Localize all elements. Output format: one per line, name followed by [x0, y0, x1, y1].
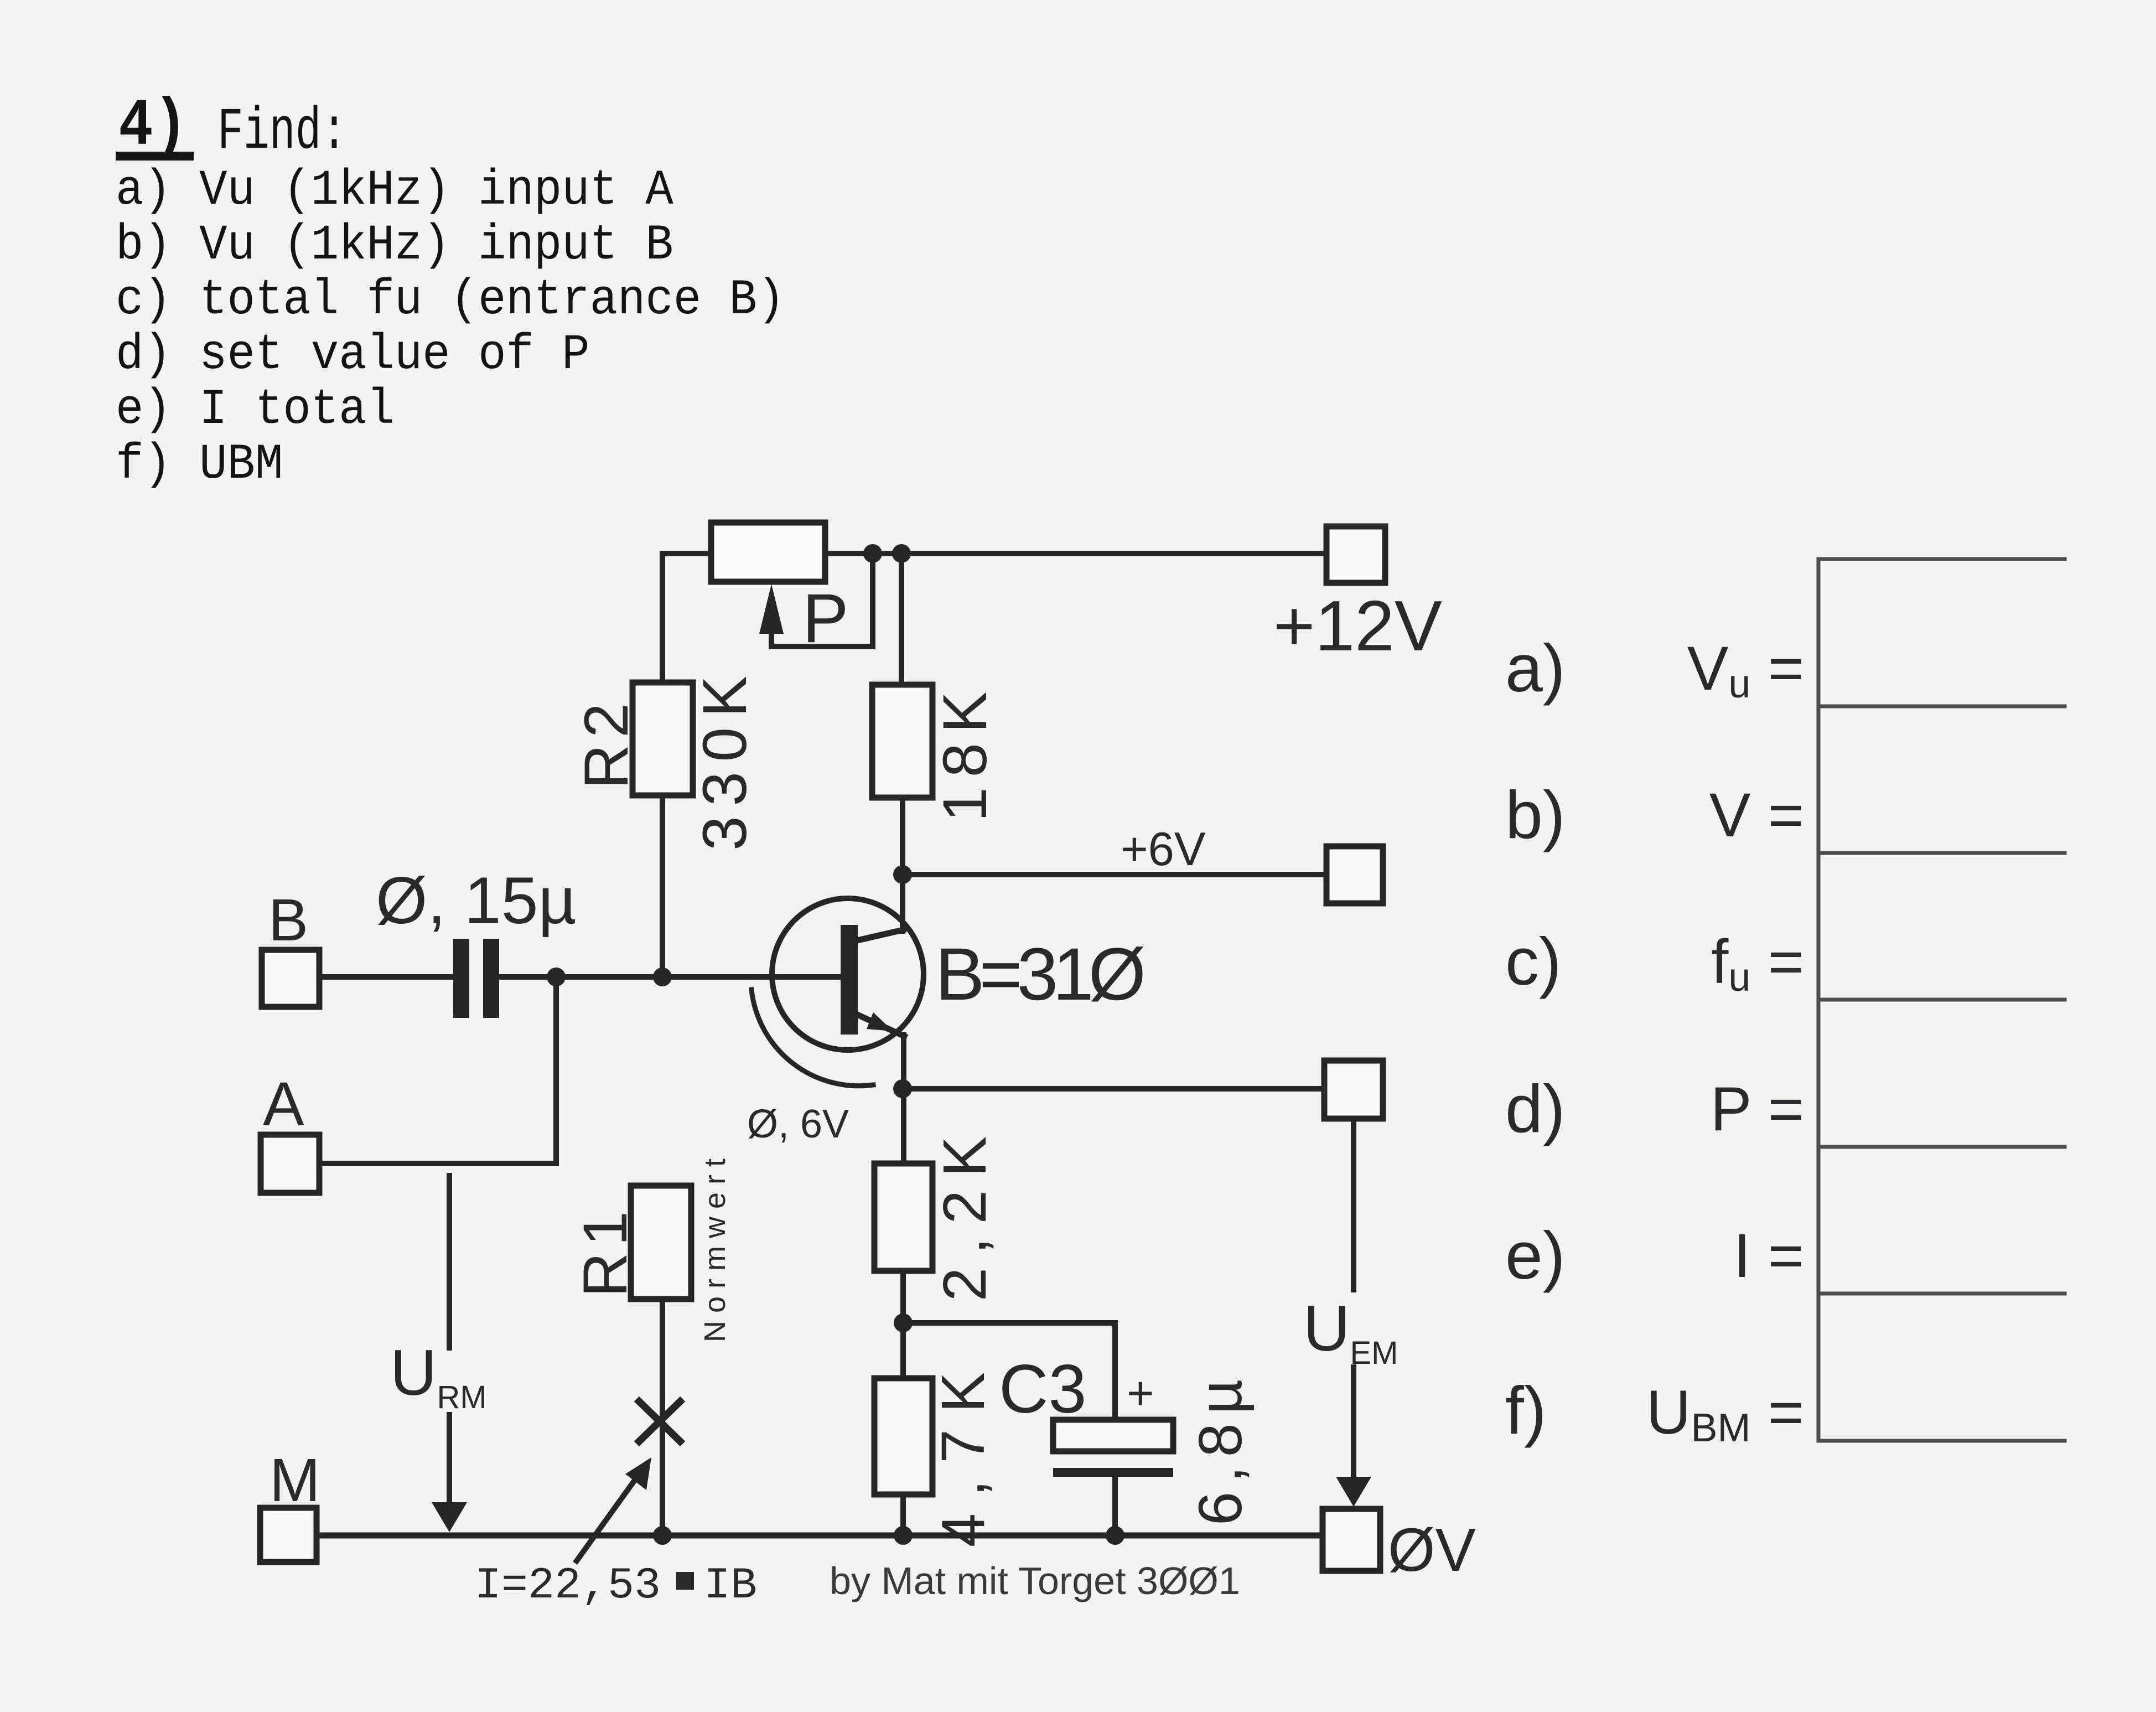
- wire node to C3: [903, 1323, 1115, 1420]
- wire collector: [900, 798, 905, 931]
- junction base/R1R2: [653, 968, 672, 986]
- answer row e: [1505, 1218, 1804, 1293]
- junction emitter RC node: [894, 1313, 913, 1332]
- measurement arrow U_RM: [390, 1176, 487, 1532]
- capacitor C3 6,8u: [999, 1351, 1255, 1535]
- svg-text:IB: IB: [704, 1561, 757, 1611]
- svg-text:A: A: [263, 1069, 304, 1139]
- annotation by Mat mit Torget 3001: [830, 1559, 1240, 1602]
- junction C3/rail: [1106, 1526, 1124, 1545]
- svg-text:e): e): [1505, 1218, 1565, 1293]
- junction emitter node: [893, 1079, 912, 1098]
- svg-text:Ø, 6V: Ø, 6V: [747, 1102, 849, 1146]
- svg-text:d): d): [1505, 1071, 1565, 1146]
- wire pot left to R2: [662, 554, 711, 682]
- svg-text:+6V: +6V: [1121, 823, 1206, 876]
- svg-text:2,2K: 2,2K: [931, 1123, 999, 1301]
- junction R1/rail: [653, 1526, 672, 1545]
- wire +12V rail: [825, 551, 1326, 556]
- junction 4,7K/rail: [894, 1526, 913, 1545]
- answer table grid: [1818, 559, 2065, 1441]
- heading Find:: [217, 99, 347, 166]
- svg-text:+12V: +12V: [1273, 586, 1442, 666]
- resistor 18K: [872, 681, 999, 821]
- resistor 4,7K: [874, 1356, 997, 1547]
- item f: [116, 437, 283, 493]
- wire 18K top: [899, 554, 904, 685]
- svg-text:P: P: [802, 580, 848, 657]
- heading number 4): [118, 89, 188, 164]
- svg-text:ØV: ØV: [1388, 1516, 1476, 1584]
- wire +6V: [903, 872, 1326, 877]
- svg-text:UEM: UEM: [1303, 1292, 1398, 1371]
- svg-text:I=22,53: I=22,53: [475, 1561, 661, 1611]
- wire R2 to base node: [660, 795, 665, 977]
- svg-text:18K: 18K: [930, 681, 999, 821]
- svg-text:URM: URM: [390, 1336, 487, 1415]
- svg-text:f): f): [1505, 1373, 1547, 1448]
- svg-text:Vu =: Vu =: [1687, 634, 1804, 706]
- wire emitter to terminal d: [903, 1086, 1324, 1092]
- junction 18K/rail: [892, 544, 911, 563]
- transistor Q1: [772, 898, 1144, 1050]
- svg-text:V =: V =: [1709, 780, 1804, 850]
- answer row d: [1505, 1071, 1804, 1146]
- wire C1 to base: [499, 974, 841, 980]
- measurement arc 0,6V: [747, 990, 873, 1146]
- wire 2,2K to node: [900, 1271, 906, 1378]
- wire input A branch: [319, 977, 556, 1163]
- svg-text:B: B: [268, 886, 308, 953]
- item b: [116, 218, 673, 274]
- annotation I=22,53 IB: [475, 1561, 757, 1611]
- wire emitter down: [901, 1035, 906, 1163]
- resistor R1: [571, 1151, 732, 1342]
- terminal +6V: [1326, 846, 1383, 903]
- svg-text:UBM =: UBM =: [1646, 1378, 1804, 1450]
- item c: [116, 272, 785, 329]
- junction collector +6V: [893, 865, 912, 884]
- wire 4,7K to rail: [900, 1494, 906, 1535]
- svg-text:I =: I =: [1733, 1221, 1804, 1290]
- annotation arrow to X: [577, 1457, 651, 1561]
- answer row b: [1505, 777, 1804, 852]
- svg-text:330K: 330K: [690, 666, 759, 851]
- svg-text:B=31Ø: B=31Ø: [935, 933, 1144, 1016]
- capacitor C1 0,15u: [376, 863, 577, 1018]
- terminal 0V: [1323, 1509, 1476, 1584]
- junction base/A: [547, 968, 566, 986]
- terminal M: [260, 1446, 320, 1562]
- svg-text:R1: R1: [571, 1204, 640, 1297]
- svg-text:c): c): [1505, 924, 1562, 999]
- svg-text:b): b): [1505, 777, 1565, 852]
- terminal B: [262, 886, 319, 1007]
- svg-text:C3: C3: [999, 1351, 1087, 1427]
- svg-text:6,8µ: 6,8µ: [1186, 1370, 1255, 1525]
- svg-text:P =: P =: [1711, 1074, 1804, 1144]
- svg-text:R2: R2: [572, 696, 641, 789]
- svg-text:by Mat mit Torget 3ØØ1: by Mat mit Torget 3ØØ1: [830, 1559, 1240, 1602]
- svg-text:+: +: [1127, 1367, 1154, 1420]
- item d: [116, 327, 590, 384]
- wire ground rail: [317, 1533, 1323, 1539]
- svg-text:Ø, 15µ: Ø, 15µ: [376, 863, 577, 938]
- svg-text:a): a): [1505, 630, 1565, 706]
- heading underline: [116, 152, 194, 161]
- potentiometer P: [711, 523, 873, 657]
- wire R1 to ground rail: [660, 1299, 665, 1535]
- svg-text:4,7K: 4,7K: [929, 1356, 997, 1547]
- X mark on R1 wire: [639, 1401, 680, 1441]
- item e: [116, 382, 395, 438]
- resistor R2 330K: [572, 666, 759, 851]
- wire input B to C1: [319, 974, 453, 980]
- junction wiper/rail: [863, 544, 882, 563]
- svg-text:M: M: [269, 1446, 320, 1514]
- answer row a: [1505, 630, 1804, 706]
- label +6V: [1121, 823, 1206, 876]
- terminal d (emitter): [1324, 1061, 1383, 1119]
- svg-text:Normwert: Normwert: [698, 1151, 732, 1342]
- svg-text:fu =: fu =: [1711, 927, 1804, 1000]
- answer row c: [1505, 924, 1804, 1000]
- answer row f: [1505, 1373, 1804, 1450]
- terminal A: [261, 1069, 319, 1193]
- item a: [116, 163, 673, 219]
- measurement arrow U_EM: [1303, 1119, 1398, 1507]
- resistor 2,2K: [874, 1123, 999, 1301]
- terminal +12V: [1273, 526, 1442, 666]
